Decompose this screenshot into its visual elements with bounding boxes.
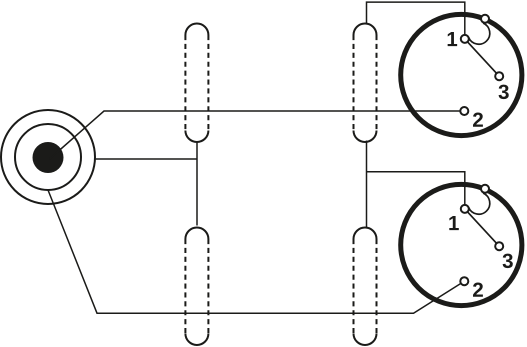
label pin 1 of U1 bbox=[448, 32, 458, 46]
XLR U1 link pin1 to pin3 bbox=[465, 39, 499, 76]
XLR U1 pin 3 bbox=[495, 72, 503, 80]
cable sleeve S3 (bottom left, dashed capsule) bbox=[185, 228, 208, 345]
cable sleeve S2 (top right, dashed capsule) bbox=[354, 24, 377, 143]
XLR U1 pin 2 bbox=[460, 107, 468, 115]
jack plug J1 tip contact (filled) bbox=[33, 142, 64, 173]
XLR U1 pin 1 bbox=[461, 35, 469, 43]
wire: cable 2 top to XLR U1 pin 1 bbox=[367, 2, 465, 39]
label pin 3 of U2 bbox=[503, 254, 513, 269]
XLR U2 jumper arc pin1 to shell bbox=[469, 193, 490, 214]
XLR U2 shell lug bbox=[481, 185, 489, 193]
label pin 1 of U2 bbox=[449, 216, 459, 230]
label pin 2 of U2 bbox=[473, 283, 483, 297]
wire: cable 2 segment between sleeves bbox=[366, 141, 368, 228]
XLR U1 jumper arc pin1 to shell bbox=[469, 23, 490, 44]
XLR U2 pin 3 bbox=[495, 242, 503, 250]
cable sleeve S4 (bottom right, dashed capsule) bbox=[354, 228, 377, 345]
XLR U2 pin 2 bbox=[460, 277, 468, 285]
wire: jack tip to XLR U1 pin 2 bbox=[50, 111, 465, 159]
wire: cable 1 segment between sleeves bbox=[196, 142, 198, 226]
wire: cable 2 to XLR U2 pin 1 bbox=[367, 172, 465, 209]
jack plug J1 outer circle (sleeve) bbox=[1, 110, 95, 204]
XLR U2 pin 1 bbox=[461, 205, 469, 213]
XLR U1 shell lug bbox=[481, 15, 489, 23]
jack plug J1 middle circle (ring) bbox=[15, 124, 81, 190]
label pin 2 of U1 bbox=[473, 113, 483, 127]
XLR U2 link pin1 to pin3 bbox=[465, 209, 499, 246]
cable sleeve S1 (top left, dashed capsule) bbox=[185, 24, 208, 143]
XLR connector U2 body bbox=[401, 184, 522, 305]
XLR connector U1 body bbox=[401, 14, 522, 135]
wire: jack ring to XLR U2 pin 2 bbox=[48, 190, 464, 313]
label pin 3 of U1 bbox=[499, 85, 509, 100]
wire: jack sleeve to cable 1 shield bbox=[95, 158, 197, 160]
